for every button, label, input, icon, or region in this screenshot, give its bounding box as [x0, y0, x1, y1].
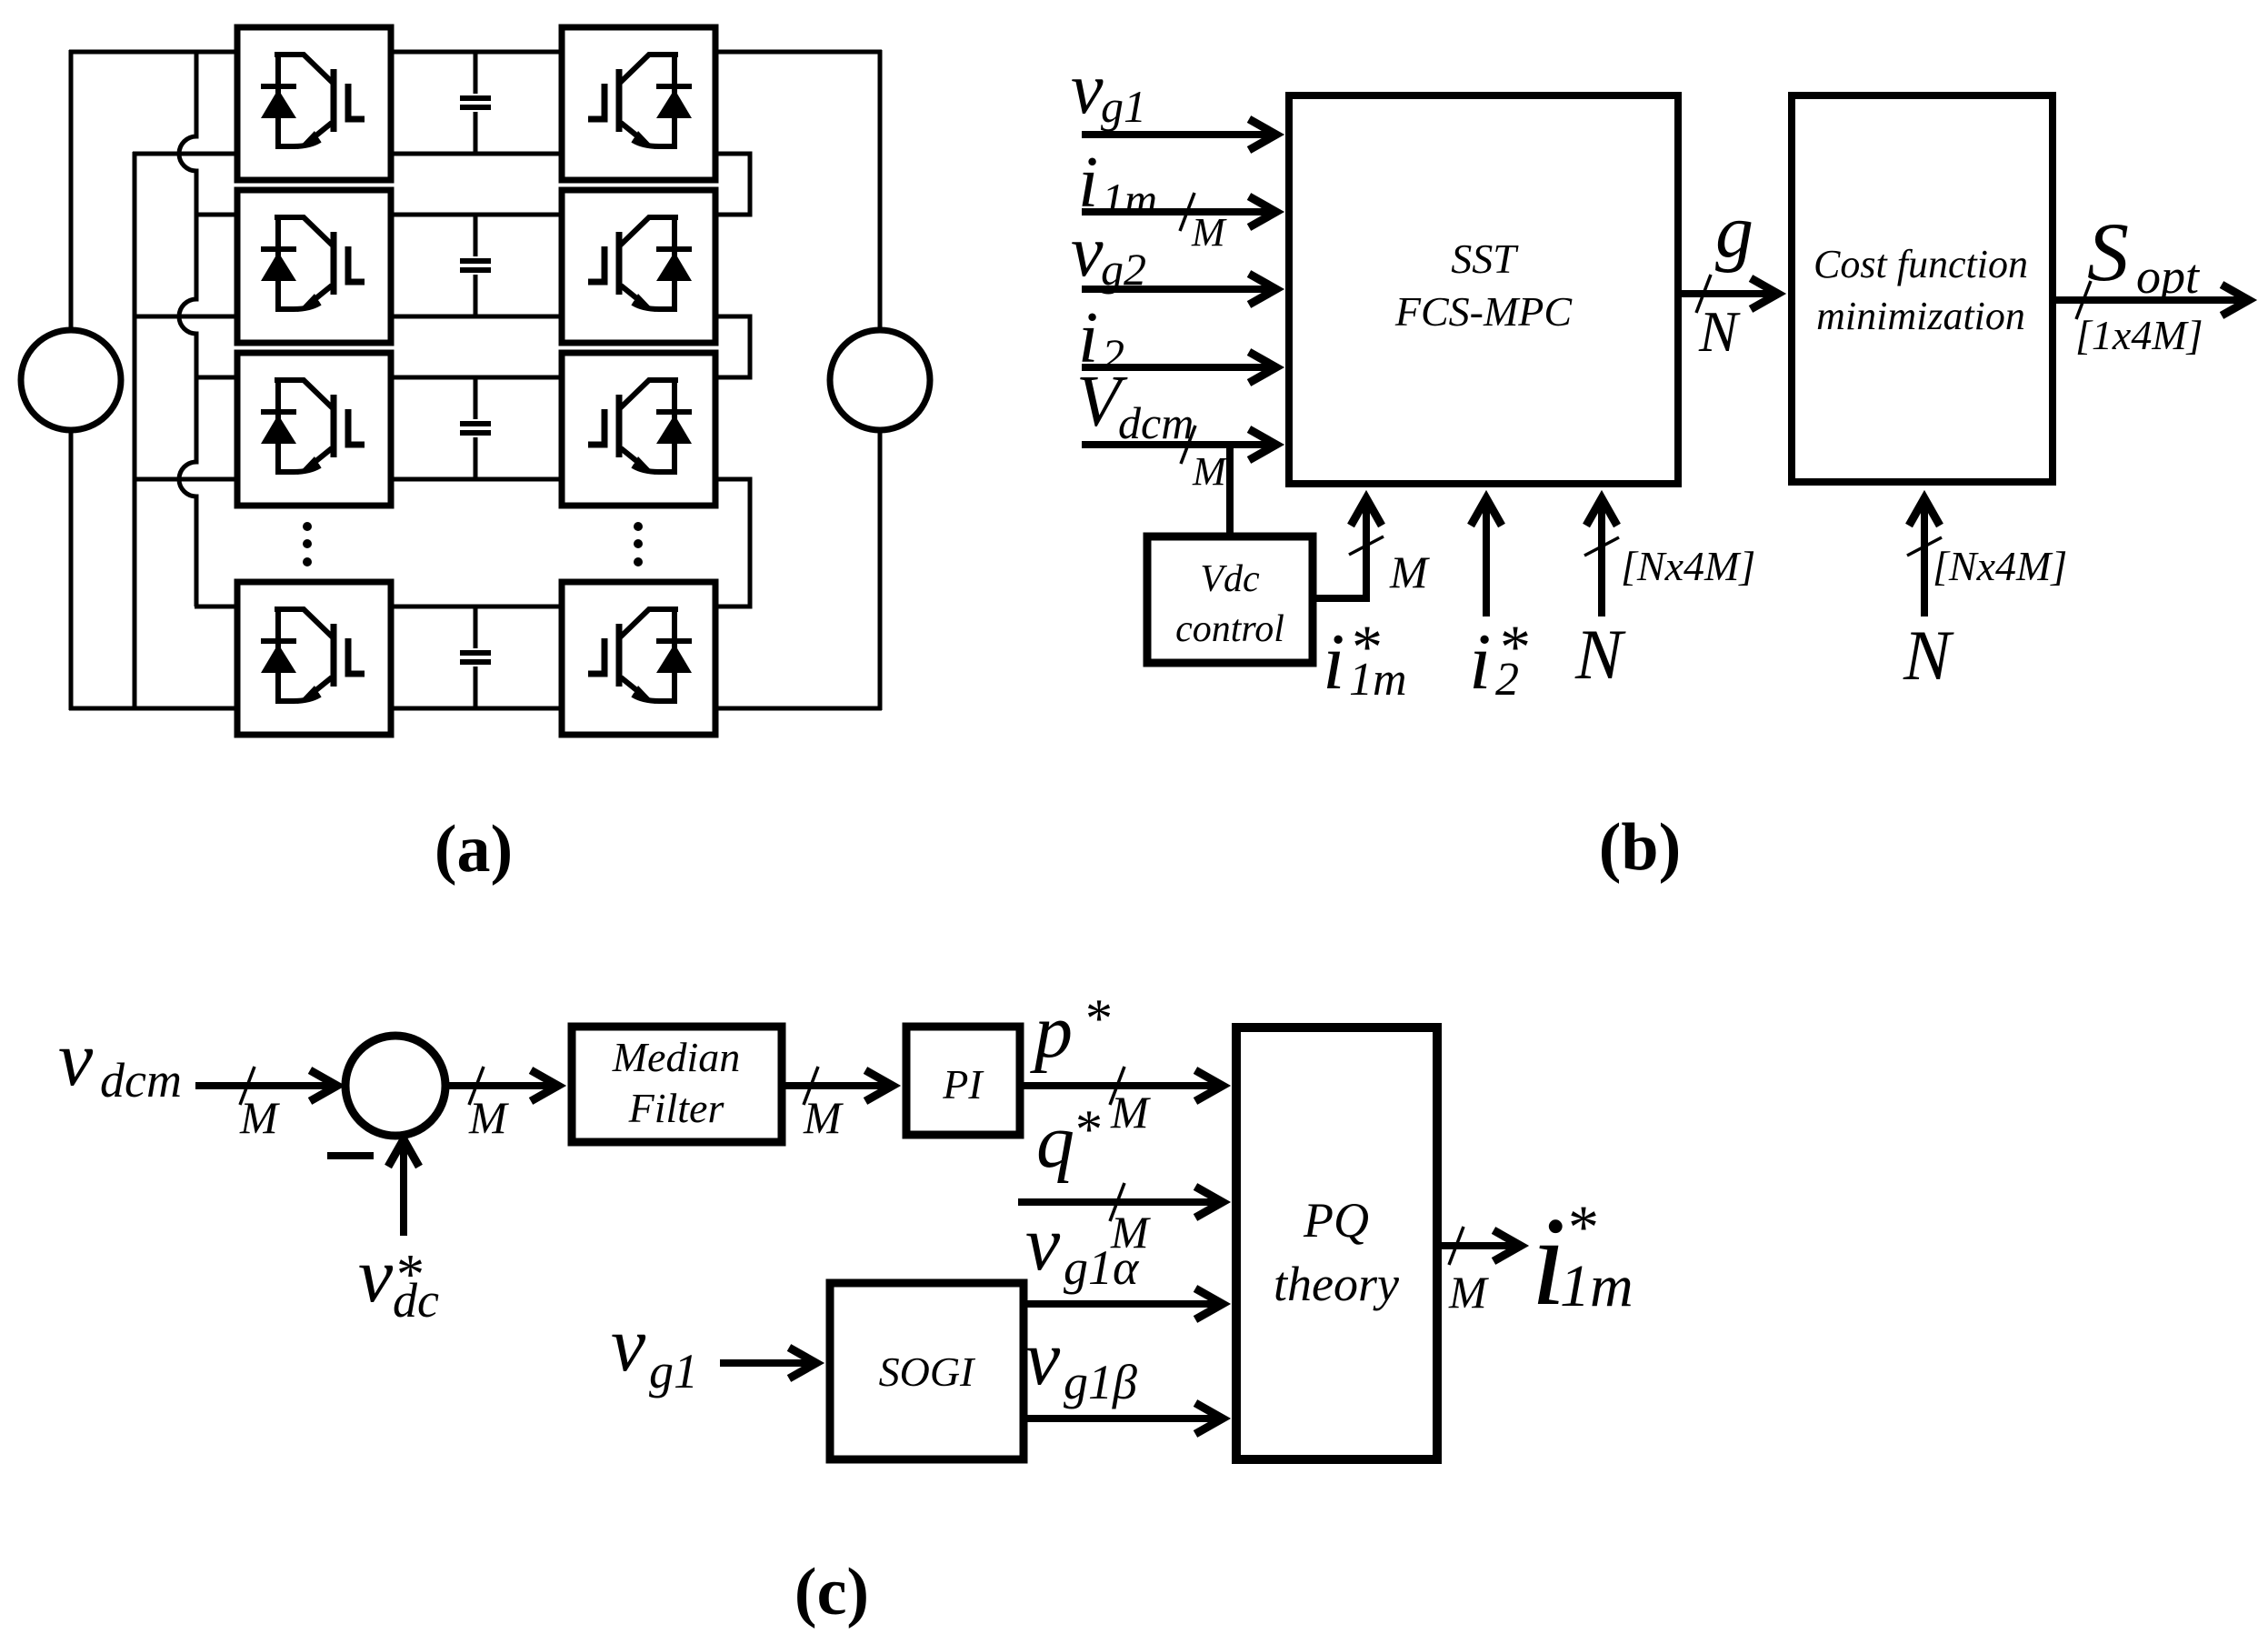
svg-text:g1α: g1α — [1064, 1240, 1140, 1295]
label i_2 — [1078, 298, 1124, 380]
bus-width slash [1x4M] on Sopt — [2076, 281, 2091, 319]
block Vdc control — [1147, 536, 1313, 663]
label N under g slash — [1698, 299, 1741, 364]
svg-text:(b): (b) — [1599, 810, 1681, 885]
arrow N into SST — [1586, 498, 1617, 616]
AC source V1 (left grid source) — [21, 330, 121, 430]
svg-text:dcm: dcm — [1118, 397, 1194, 448]
svg-text:M: M — [1110, 1087, 1151, 1138]
label M under p* slash — [1110, 1087, 1151, 1138]
svg-text:2: 2 — [1495, 654, 1519, 706]
svg-text:SST: SST — [1451, 236, 1519, 282]
svg-text:Filter: Filter — [628, 1085, 725, 1131]
bus-width slash M after summer — [469, 1067, 484, 1105]
block PI — [906, 1027, 1020, 1135]
converter cell A1 (left H-bridge module) — [237, 27, 391, 180]
block Median Filter — [572, 1027, 782, 1142]
label i*1m reference — [1323, 612, 1407, 707]
wire dc rail top row 4 — [391, 605, 562, 609]
label M after MF slash — [803, 1092, 844, 1143]
bus-width slash M on q* — [1110, 1183, 1124, 1221]
arrow i1m input — [1082, 196, 1276, 227]
wire dc rail bottom row 3 — [391, 477, 562, 482]
svg-text:opt: opt — [2136, 249, 2201, 304]
svg-text:M: M — [239, 1092, 280, 1143]
wire cell A3 upper input wire — [195, 376, 237, 380]
svg-text:v: v — [1025, 1314, 1061, 1401]
arrow N into cost function — [1909, 498, 1940, 616]
svg-text:(c): (c) — [794, 1555, 869, 1629]
series link cell B3 to B4 — [715, 479, 750, 606]
svg-text:[1x4M]: [1x4M] — [2075, 312, 2203, 358]
block PQ theory — [1236, 1027, 1437, 1459]
wire V1 bottom lead — [69, 429, 74, 710]
label v*dc reference — [358, 1231, 439, 1328]
svg-text:i: i — [1469, 618, 1491, 707]
arrow Vdcm input — [1082, 429, 1276, 460]
arrow g from SST to cost function — [1678, 278, 1778, 309]
svg-text:i: i — [1323, 618, 1344, 707]
arrow median filter to PI — [782, 1070, 893, 1101]
svg-text:*: * — [1568, 1192, 1599, 1261]
svg-text:N: N — [1698, 299, 1741, 364]
svg-text:PI: PI — [942, 1061, 984, 1108]
svg-text:Cost function: Cost function — [1813, 242, 2028, 286]
label M under i1m slash — [1191, 210, 1227, 255]
label v_g1 input label — [611, 1300, 698, 1398]
svg-text:minimization: minimization — [1816, 294, 2025, 338]
ellipsis dots left column — [303, 522, 312, 566]
svg-text:i: i — [1078, 143, 1098, 223]
arrow vg1alpha into PQ theory — [1024, 1288, 1223, 1319]
label M under Vdcm slash — [1192, 449, 1228, 494]
series link cell B1 to B2 — [715, 154, 750, 215]
wire dc rail top row 1 — [391, 50, 562, 55]
block SOGI — [830, 1283, 1024, 1459]
label [Nx4M] label 1 — [1621, 543, 1755, 589]
svg-text:q: q — [1036, 1099, 1074, 1184]
svg-text:p: p — [1030, 989, 1073, 1074]
svg-text:g1: g1 — [649, 1344, 698, 1398]
wire cell A1 lower input wire — [133, 152, 237, 156]
bus-width slash [Nx4M] on N — [1584, 537, 1619, 556]
converter cell A4 (left H-bridge module) — [237, 582, 391, 735]
arrow vg2 input — [1082, 274, 1276, 305]
svg-text:1m: 1m — [1102, 174, 1157, 225]
label i*1m output label — [1531, 1191, 1634, 1332]
label S_opt — [2087, 205, 2201, 304]
svg-text:v: v — [58, 1015, 94, 1102]
arrow i1m* output of PQ theory — [1437, 1230, 1521, 1261]
converter cell B4 (right H-bridge module, mirrored) — [562, 582, 715, 735]
label g label — [1715, 189, 1753, 274]
svg-text:1m: 1m — [1349, 654, 1407, 706]
label M under output slash — [1448, 1267, 1489, 1318]
svg-text:g2: g2 — [1101, 244, 1146, 295]
svg-text:*: * — [1085, 988, 1113, 1048]
svg-text:v: v — [358, 1231, 394, 1318]
wire dc rail bottom row 1 — [391, 152, 562, 156]
converter cell B3 (right H-bridge module, mirrored) — [562, 353, 715, 506]
svg-text:M: M — [1448, 1267, 1489, 1318]
dc-link capacitor C2 — [460, 215, 491, 316]
svg-text:M: M — [1389, 546, 1430, 597]
label v_dcm — [58, 1015, 182, 1108]
svg-text:M: M — [1191, 210, 1227, 255]
label i_1m — [1078, 143, 1157, 225]
label [1x4M] label — [2075, 312, 2203, 358]
dc-link capacitor C1 — [460, 52, 491, 154]
svg-text:S: S — [2087, 205, 2129, 298]
svg-text:M: M — [1192, 449, 1228, 494]
svg-text:theory: theory — [1274, 1257, 1399, 1311]
ellipsis dots right column — [634, 522, 643, 566]
bus-width slash M on i1m* output — [1449, 1227, 1464, 1265]
converter cell A3 (left H-bridge module) — [237, 353, 391, 506]
svg-text:N: N — [1574, 615, 1626, 694]
svg-text:dc: dc — [393, 1273, 439, 1328]
label p* reference — [1030, 988, 1113, 1074]
svg-text:dcm: dcm — [100, 1053, 182, 1108]
block Cost function minimization — [1792, 95, 2053, 482]
wire cell B1 upper output to right bus — [715, 50, 882, 55]
converter cell B1 (right H-bridge module, mirrored) — [562, 27, 715, 180]
wire dc rail bottom row 2 — [391, 315, 562, 319]
wire cell A2 upper input wire — [195, 213, 237, 217]
arrow vg1beta into PQ theory — [1024, 1403, 1223, 1434]
arrow Sopt output — [2053, 285, 2249, 316]
svg-text:g1: g1 — [1101, 81, 1146, 132]
label i*2 reference — [1469, 612, 1531, 707]
wire dc rail top row 2 — [391, 213, 562, 217]
label v_g2 — [1071, 212, 1146, 295]
svg-text:[Nx4M]: [Nx4M] — [1621, 543, 1755, 589]
wire cell B4 lower output to right bus — [715, 707, 882, 711]
wire cell A3 lower input wire — [133, 477, 237, 482]
wire V1 top lead — [69, 50, 74, 331]
svg-text:g1β: g1β — [1064, 1355, 1137, 1409]
converter cell A2 (left H-bridge module) — [237, 190, 391, 343]
svg-text:[Nx4M]: [Nx4M] — [1933, 543, 2067, 589]
svg-text:PQ: PQ — [1303, 1193, 1369, 1248]
wire top bus from V1 to cell A1 upper input — [69, 50, 237, 55]
label v_g1 — [1071, 49, 1146, 132]
label M under vdcm slash — [239, 1092, 280, 1143]
wire left bus x=148 joining lower terminals — [133, 152, 137, 710]
svg-text:M: M — [468, 1092, 509, 1143]
wire dc rail bottom row 4 — [391, 707, 562, 711]
bus-width slash M on Vdcm — [1181, 426, 1195, 464]
label M after summer slash — [468, 1092, 509, 1143]
bus-width slash M on i1m* — [1349, 536, 1384, 555]
wire Vdcm tap down to Vdc control — [1226, 445, 1234, 536]
series link cell B2 to B3 — [715, 316, 750, 377]
label V_dcm — [1076, 362, 1194, 448]
wire Vdc control output to i1m* arrow — [1313, 555, 1366, 598]
wire bottom bus to cell A4 lower input — [69, 707, 237, 711]
arrow i2* into SST — [1471, 498, 1502, 616]
wire cell A4 upper input wire — [195, 605, 237, 609]
arrow v*dc into summer — [388, 1139, 419, 1236]
svg-text:v: v — [1025, 1199, 1061, 1287]
block SST FCS-MPC — [1289, 95, 1678, 484]
svg-text:N: N — [1903, 616, 1954, 695]
label [Nx4M] label 2 — [1933, 543, 2067, 589]
arrow i2 input — [1082, 352, 1276, 383]
svg-text:Median: Median — [612, 1034, 741, 1080]
bus-width slash N on g — [1696, 275, 1711, 313]
svg-text:FCS-MPC: FCS-MPC — [1394, 288, 1574, 335]
bus-width slash M on vdcm — [240, 1067, 255, 1105]
label M under q* slash — [1110, 1207, 1151, 1258]
svg-text:1m: 1m — [1560, 1253, 1634, 1319]
arrow vdcm into summer — [195, 1070, 337, 1101]
bus-width slash M after median filter — [804, 1067, 818, 1105]
wire cell A2 lower input wire — [133, 315, 237, 319]
svg-text:v: v — [611, 1300, 646, 1388]
label v_g1alpha — [1025, 1199, 1140, 1295]
dc-link capacitor C4 — [460, 606, 491, 708]
svg-text:control: control — [1175, 608, 1284, 650]
svg-text:Vdc: Vdc — [1200, 558, 1260, 600]
arrow vg1 into SOGI — [720, 1348, 816, 1378]
label N label 2 — [1903, 616, 1954, 695]
arrow error into median filter — [447, 1070, 558, 1101]
wire V2 bottom lead — [878, 429, 883, 710]
minus sign at summing junction — [327, 1152, 374, 1159]
svg-text:SOGI: SOGI — [879, 1348, 976, 1395]
converter cell B2 (right H-bridge module, mirrored) — [562, 190, 715, 343]
arrow vg1 input — [1082, 119, 1276, 150]
arrow q* into PQ theory — [1018, 1187, 1223, 1218]
svg-text:*: * — [1075, 1099, 1103, 1159]
label N label 1 — [1574, 615, 1626, 694]
summing junction — [345, 1036, 445, 1136]
arrow i1m* into SST — [1351, 498, 1382, 556]
svg-text:M: M — [803, 1092, 844, 1143]
AC source V2 (right grid source) — [830, 330, 930, 430]
wire dc rail top row 3 — [391, 376, 562, 380]
bus-width slash [Nx4M] on cost N — [1907, 537, 1942, 556]
label M right of i1m* slash — [1389, 546, 1430, 597]
svg-text:v: v — [1071, 49, 1104, 129]
wire V2 top lead — [878, 50, 883, 331]
arrow p* into PQ theory — [1020, 1070, 1223, 1101]
label v_g1beta — [1025, 1314, 1137, 1409]
bus-width slash M on p* — [1110, 1067, 1124, 1105]
label q* reference — [1036, 1099, 1103, 1184]
dc-link capacitor C3 — [460, 377, 491, 479]
svg-text:v: v — [1071, 212, 1104, 292]
bus-width slash M on i1m — [1180, 193, 1194, 231]
left bus x=216 (upper terminals) with crossover hops — [179, 50, 196, 606]
svg-text:g: g — [1715, 189, 1753, 274]
svg-text:(a): (a) — [435, 812, 513, 887]
